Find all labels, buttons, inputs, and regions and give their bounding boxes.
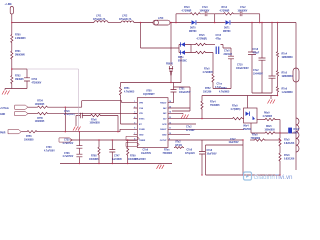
svg-text:R753: R753 (221, 88, 227, 90)
svg-text:OUTLP: OUTLP (160, 140, 167, 142)
svg-text:PWR: PWR (0, 132, 6, 134)
svg-text:5: 5 (134, 122, 135, 124)
svg-text:C7x7: C7x7 (230, 139, 236, 141)
svg-text:4.7k0805: 4.7k0805 (263, 115, 273, 118)
svg-text:C7x8: C7x8 (253, 49, 259, 51)
svg-text:L702: L702 (122, 16, 128, 18)
svg-text:4.7uF/50V: 4.7uF/50V (63, 142, 74, 145)
svg-text:4.7(5W)R: 4.7(5W)R (182, 9, 192, 12)
svg-text:1M8/3W60: 1M8/3W60 (282, 57, 294, 59)
svg-text:D67x: D67x (178, 57, 184, 59)
svg-text:R6x9: R6x9 (264, 113, 270, 115)
svg-text:R700: R700 (15, 35, 21, 37)
svg-text:C751: C751 (179, 89, 185, 91)
svg-text:+5.5Vsb: +5.5Vsb (0, 108, 9, 110)
svg-text:R7x6: R7x6 (282, 89, 288, 91)
svg-text:R752: R752 (205, 88, 211, 90)
svg-text:100/0805: 100/0805 (24, 139, 34, 141)
svg-text:100/0805: 100/0805 (35, 121, 45, 123)
svg-text:100/0805: 100/0805 (89, 159, 99, 161)
svg-text:100uF/25V: 100uF/25V (179, 92, 191, 94)
svg-text:0.82/1206: 0.82/1206 (284, 143, 295, 145)
svg-text:R708: R708 (91, 156, 97, 158)
svg-text:100k0805: 100k0805 (265, 129, 276, 131)
svg-text:R701: R701 (15, 51, 21, 53)
svg-text:U7x2: U7x2 (175, 142, 181, 144)
svg-text:473/630V: 473/630V (32, 81, 42, 84)
svg-text:C7x2: C7x2 (240, 7, 246, 9)
svg-text:15: 15 (169, 106, 171, 108)
svg-text:1: 1 (134, 101, 135, 103)
svg-text:C702: C702 (32, 79, 38, 81)
svg-text:154/400V: 154/400V (253, 72, 263, 75)
svg-text:8: 8 (134, 138, 135, 140)
svg-text:11: 11 (169, 128, 171, 130)
svg-text:9: 9 (169, 138, 170, 140)
svg-text:2: 2 (134, 106, 135, 108)
svg-text:12: 12 (169, 122, 171, 124)
svg-text:CSS: CSS (139, 108, 144, 110)
svg-text:4.7uF/50V: 4.7uF/50V (63, 155, 74, 158)
svg-text:13: 13 (169, 117, 171, 119)
svg-text:0.82/1206: 0.82/1206 (284, 158, 295, 160)
svg-text:FB670: FB670 (166, 64, 174, 66)
svg-text:BYV26C: BYV26C (178, 60, 187, 62)
svg-text:R709: R709 (130, 156, 136, 158)
svg-text:R6x5: R6x5 (266, 126, 272, 128)
svg-text:C7x6: C7x6 (64, 111, 70, 113)
svg-text:U750: U750 (146, 91, 152, 93)
svg-text:R7x0: R7x0 (252, 135, 258, 137)
svg-text:4: 4 (134, 116, 135, 119)
svg-text:R756: R756 (26, 136, 32, 138)
svg-text:GND: GND (139, 134, 144, 136)
svg-text:AP431: AP431 (175, 144, 183, 147)
svg-text:1.2k/3W60: 1.2k/3W60 (282, 92, 294, 94)
svg-text:MR760: MR760 (189, 31, 197, 33)
svg-text:GND: GND (162, 134, 167, 136)
svg-text:10uF/50V: 10uF/50V (141, 153, 152, 155)
svg-text:R755: R755 (37, 118, 43, 120)
svg-text:C7x3: C7x3 (202, 7, 208, 9)
svg-text:LTB: LTB (139, 113, 143, 115)
svg-text:R7x9: R7x9 (232, 106, 238, 108)
svg-text:R754: R754 (37, 100, 43, 103)
svg-text:R751: R751 (124, 88, 130, 90)
svg-text:4.7k/0805: 4.7k/0805 (219, 90, 230, 93)
svg-text:4.7uF(50V): 4.7uF(50V) (64, 113, 75, 116)
svg-text:10uF/50V: 10uF/50V (207, 153, 218, 155)
svg-text:3M9/3W0: 3M9/3W0 (15, 54, 26, 56)
svg-text:16: 16 (169, 101, 171, 103)
svg-text:4.7uF/50V: 4.7uF/50V (44, 149, 55, 152)
svg-text:10/1206: 10/1206 (203, 91, 212, 93)
svg-text:L700: L700 (158, 18, 164, 20)
svg-text:4.7/2W(R): 4.7/2W(R) (197, 37, 208, 40)
svg-text:D670: D670 (190, 28, 196, 30)
svg-text:4.7k/0805: 4.7k/0805 (124, 90, 135, 93)
svg-text:100k0805: 100k0805 (90, 123, 101, 125)
svg-text:C730: C730 (46, 147, 52, 149)
svg-text:GND: GND (0, 114, 5, 116)
svg-text:R702: R702 (15, 76, 21, 78)
svg-text:7: 7 (134, 133, 135, 135)
svg-text:470uH/0.7A: 470uH/0.7A (93, 18, 106, 21)
svg-text:470p/1kV: 470p/1kV (185, 152, 195, 155)
svg-text:C7x0: C7x0 (224, 51, 230, 53)
svg-text:C7x5: C7x5 (216, 35, 222, 37)
svg-text:R7x5: R7x5 (282, 73, 288, 75)
svg-text:SYNC: SYNC (139, 118, 145, 120)
svg-text:PGND: PGND (139, 129, 145, 131)
svg-text:TIMER: TIMER (139, 140, 146, 142)
svg-text:R7x6: R7x6 (91, 119, 97, 121)
svg-text:FAULT: FAULT (160, 128, 167, 131)
svg-text:471/1kV: 471/1kV (186, 129, 195, 132)
svg-text:470p: 470p (216, 37, 222, 40)
svg-text:D671: D671 (224, 28, 230, 30)
svg-text:R7x4: R7x4 (210, 101, 216, 104)
svg-text:R7x4: R7x4 (282, 53, 288, 56)
svg-text:R7x5: R7x5 (284, 140, 290, 142)
svg-text:1uF/0805: 1uF/0805 (112, 159, 123, 161)
svg-text:750/0805: 750/0805 (163, 153, 173, 155)
svg-text:100/0805: 100/0805 (35, 104, 45, 106)
svg-text:MR760: MR760 (223, 31, 231, 33)
svg-text:3: 3 (134, 112, 135, 114)
svg-text:1M8/3W60: 1M8/3W60 (282, 76, 294, 78)
svg-text:14: 14 (169, 111, 171, 114)
svg-text:CQ0765RT: CQ0765RT (143, 94, 155, 96)
svg-text:C710: C710 (237, 65, 243, 67)
svg-text:GiadinhTivi.vn: GiadinhTivi.vn (254, 174, 294, 181)
svg-text:VFB: VFB (139, 103, 144, 105)
svg-text:10: 10 (169, 133, 171, 135)
svg-text:750/0805: 750/0805 (251, 138, 261, 140)
svg-text:4.7(0805): 4.7(0805) (231, 108, 241, 111)
svg-text:R7x6: R7x6 (284, 155, 290, 157)
svg-text:U6x4: U6x4 (243, 125, 249, 128)
svg-text:4.7k/0805: 4.7k/0805 (203, 71, 214, 74)
svg-text:C7x2: C7x2 (253, 70, 259, 72)
svg-text:C7x8: C7x8 (207, 150, 213, 152)
svg-text:4.7(5W)R: 4.7(5W)R (220, 9, 230, 12)
svg-text:2.2M/3W0: 2.2M/3W0 (15, 38, 26, 40)
svg-text:C747: C747 (114, 155, 120, 158)
svg-text:104/630V: 104/630V (200, 9, 210, 12)
svg-text:R7x3: R7x3 (184, 7, 190, 9)
svg-text:R7x2: R7x2 (222, 7, 228, 9)
svg-text:SCR: SCR (162, 124, 167, 126)
svg-text:222/1kV: 222/1kV (224, 54, 233, 56)
svg-text:1M/3W0: 1M/3W0 (15, 79, 24, 81)
svg-text:L701: L701 (96, 16, 102, 18)
svg-text:D7x6: D7x6 (294, 129, 300, 131)
svg-text:24C: 24C (163, 112, 167, 115)
svg-text:6: 6 (134, 128, 135, 130)
svg-text:C736: C736 (64, 153, 70, 155)
svg-text:R7xx: R7xx (164, 150, 170, 152)
svg-text:470uH/0.7A: 470uH/0.7A (119, 18, 132, 21)
svg-text:PS2561: PS2561 (243, 129, 252, 131)
svg-text:10uF/50V: 10uF/50V (229, 142, 240, 144)
svg-text:470pF: 470pF (253, 51, 260, 54)
svg-text:104/630V: 104/630V (238, 9, 248, 12)
svg-text:FAULT: FAULT (160, 102, 167, 105)
svg-text:C735: C735 (64, 140, 70, 142)
svg-text:4.7uF/50V: 4.7uF/50V (135, 158, 146, 161)
svg-text:6V8: 6V8 (294, 132, 299, 134)
svg-text:R7x5: R7x5 (199, 35, 205, 37)
svg-text:C7xx: C7xx (217, 84, 223, 86)
svg-text:C7x8: C7x8 (187, 150, 193, 152)
svg-text:C7x9: C7x9 (143, 150, 149, 152)
svg-text:R7x0: R7x0 (204, 69, 210, 71)
svg-text:C7x2: C7x2 (186, 127, 192, 129)
svg-text:+ LINE: + LINE (5, 4, 13, 6)
svg-text:750/0805: 750/0805 (210, 105, 220, 107)
svg-text:100uF/400V: 100uF/400V (236, 67, 249, 70)
